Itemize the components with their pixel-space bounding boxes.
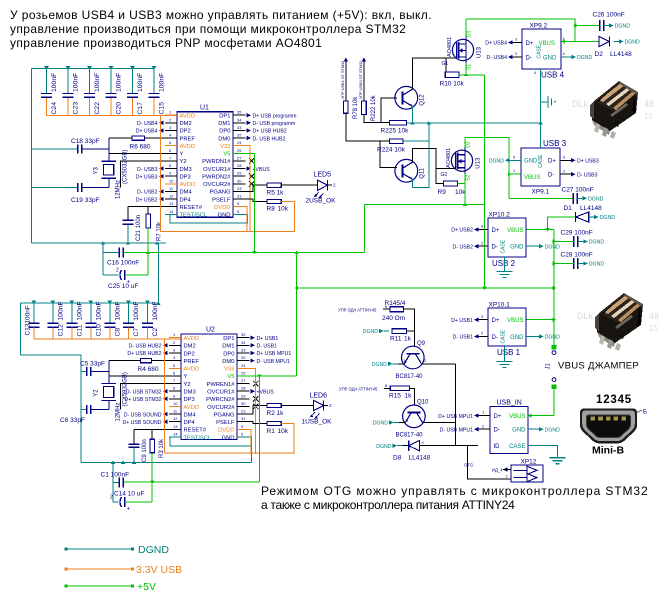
svg-text:GND: GND [218, 213, 231, 219]
wire R5 to LED5 [281, 184, 317, 186]
wire +5V from V5 U1 [246, 153, 255, 252]
wire D- USB3 out of XP9.1 [560, 168, 598, 178]
U1 pin PWRDN2# (right row 9) [202, 171, 254, 181]
svg-text:100nF: 100nF [159, 73, 166, 92]
wire Y pin to crystal [109, 152, 165, 154]
wire PSELF to R1 lower [250, 422, 268, 424]
U1 pin OVCUR2# (right row 10) [203, 178, 254, 188]
U1 pin DP2 (left row 3) [136, 125, 191, 135]
wire USB_IN CASE to earth [528, 446, 566, 464]
svg-text:PSELF: PSELF [212, 197, 231, 203]
wire PSELF to R8 [246, 199, 268, 201]
svg-text:Q11: Q11 [419, 167, 425, 179]
svg-text:VBUS ДЖАМПЕР: VBUS ДЖАМПЕР [558, 361, 639, 372]
svg-text:TEST/SCL: TEST/SCL [184, 435, 212, 441]
wire VBUS3 stub into XP9.1 [509, 173, 521, 175]
diode D1 LL4148 [564, 205, 616, 222]
svg-text:DGND: DGND [363, 329, 379, 335]
svg-text:УПР ОД4 ATTINY45: УПР ОД4 ATTINY45 [338, 307, 377, 312]
callout B pin label [636, 410, 647, 416]
wire XP9.1 CASE up [540, 123, 542, 148]
svg-text:D2: D2 [595, 51, 604, 58]
svg-text:OVCUR1#: OVCUR1# [203, 167, 231, 173]
U2 pin TEST/SCL (left row 14) [169, 432, 212, 442]
wire 3.3V loop under U1 [161, 231, 295, 233]
wire +5V upper jog to mosfet sources [365, 205, 485, 253]
svg-text:R11: R11 [390, 336, 402, 343]
U1 pin TEST/SCL (left row 14) [165, 209, 208, 219]
svg-text:32: 32 [237, 133, 242, 138]
svg-text:управление производиться при п: управление производиться при помощи микр… [10, 22, 406, 36]
wire DGND vertical crystal bus lower [80, 355, 82, 462]
svg-text:27: 27 [241, 378, 246, 383]
svg-text:D-: D- [526, 55, 532, 61]
svg-text:100nF: 100nF [95, 301, 102, 320]
U1 pin PGANG (right row 11) [210, 186, 246, 196]
svg-text:100nF: 100nF [116, 73, 123, 92]
svg-text:Mini-B: Mini-B [592, 445, 624, 457]
svg-text:D+ USB HUB2: D+ USB HUB2 [253, 129, 287, 135]
svg-text:VBUS: VBUS [507, 318, 523, 324]
svg-text:12: 12 [173, 416, 178, 421]
svg-text:24: 24 [237, 140, 242, 145]
U1 pin AVDD (left row 1) [165, 110, 195, 120]
svg-text:V5: V5 [227, 374, 234, 380]
U2 pin DP0 (right row 3) [223, 347, 291, 357]
svg-text:27: 27 [237, 155, 242, 160]
svg-text:D+ USB3: D+ USB3 [136, 174, 158, 180]
svg-text:PWRCN2#: PWRCN2# [206, 397, 235, 403]
svg-text:BC817-40: BC817-40 [396, 374, 424, 380]
wire Y2 pin to crystal lower [121, 384, 170, 410]
svg-text:Y2: Y2 [184, 382, 191, 388]
svg-text:48: 48 [644, 99, 654, 109]
U2 pin Y (left row 6) [169, 370, 188, 380]
wire D+ USB3 out of XP9.1 [560, 154, 599, 164]
svg-text:13: 13 [173, 424, 178, 429]
wire +5V left vertical riser [147, 228, 149, 275]
U2 pin PWREN1# (right row 7) [206, 378, 258, 388]
wire +5V below J1 jumper to USB_IN VBUS [553, 389, 555, 416]
resistor R8 10k [267, 199, 289, 212]
svg-text:ID: ID [494, 444, 501, 450]
svg-text:29: 29 [241, 393, 246, 398]
svg-text:V33: V33 [224, 367, 234, 373]
svg-text:34: 34 [241, 340, 246, 345]
wire GND loop under U1 [170, 214, 248, 223]
svg-text:C2: C2 [152, 328, 159, 337]
mosfet U13 AO4801 upper [442, 30, 483, 70]
junction marks DGND rails [101, 121, 543, 464]
U2 pin V5 (right row 6) [227, 370, 249, 380]
svg-text:LL4148: LL4148 [580, 205, 602, 212]
svg-text:DGND: DGND [545, 335, 561, 341]
jumper header XP12 [506, 459, 544, 483]
svg-text:D- USB1: D- USB1 [453, 335, 474, 341]
capacitor C15 100nF [149, 66, 166, 116]
svg-text:C16 100nF: C16 100nF [107, 260, 139, 267]
svg-text:AVDD: AVDD [184, 336, 200, 342]
svg-text:D2: D2 [466, 141, 472, 148]
svg-text:25: 25 [241, 370, 246, 375]
svg-text:GND: GND [512, 428, 526, 434]
svg-text:D- USB4: D- USB4 [487, 55, 508, 61]
svg-text:D-: D- [494, 428, 500, 434]
DGND feed to R11 [363, 329, 389, 335]
svg-text:C29 100nF: C29 100nF [561, 230, 593, 237]
U2 pin DP3 (left row 9) [124, 393, 194, 403]
wire D- USB1 into XP10.1 [453, 331, 488, 341]
svg-text:D+ USB SOUND: D+ USB SOUND [122, 420, 161, 426]
svg-text:12: 12 [169, 194, 174, 199]
svg-text:D1: D1 [467, 30, 473, 37]
wire U13 upper drain to VBUS4 [465, 19, 467, 37]
svg-text:DP0: DP0 [219, 129, 230, 135]
svg-text:DVDD: DVDD [214, 205, 230, 211]
svg-text:(CX5032GB): (CX5032GB) [123, 150, 129, 184]
wire DGND horizontal under U1 area [32, 242, 166, 244]
svg-text:DGND: DGND [545, 244, 561, 250]
svg-text:2: 2 [116, 268, 119, 274]
USB connector XP10.2 (USB 2) [488, 212, 526, 269]
svg-text:R15: R15 [389, 393, 401, 400]
U2 pin DM0 (right row 4) [222, 355, 290, 365]
svg-text:Y: Y [184, 374, 188, 380]
svg-text:48: 48 [649, 311, 659, 321]
svg-text:D- USB3: D- USB3 [137, 167, 158, 173]
capacitor C6 33pF [60, 405, 109, 424]
hub controller IC U1 [177, 105, 233, 218]
wire Q10 collector right [422, 422, 455, 424]
wire C29 from +5V bus [554, 241, 574, 243]
U1 pin DP4 (left row 12) [136, 194, 192, 204]
jumper J1 VBUS [546, 345, 557, 389]
svg-text:GND: GND [543, 55, 557, 61]
svg-text:R224 10k: R224 10k [377, 147, 406, 154]
wire Q9 collector right [421, 358, 455, 364]
svg-text:PGANG: PGANG [214, 412, 235, 418]
USB connector XP10.1 (USB 1) [488, 302, 526, 358]
svg-text:35: 35 [241, 332, 246, 337]
resistor R11 1k [390, 329, 412, 343]
U1 pin GND (right row 14) [218, 209, 246, 219]
svg-text:PWREN1#: PWREN1# [206, 382, 235, 388]
svg-text:R8: R8 [267, 206, 276, 213]
svg-text:УПР USB4 ОТ STM32: УПР USB4 ОТ STM32 [341, 61, 345, 99]
svg-text:14: 14 [173, 432, 178, 437]
svg-text:31: 31 [237, 194, 242, 199]
wire DGND left bus lower [20, 303, 22, 355]
svg-text:DM0: DM0 [222, 359, 234, 365]
wire 3.3V riser left of U2 [164, 339, 166, 453]
svg-text:УПР ОД4 ATTINY45: УПР ОД4 ATTINY45 [339, 387, 378, 392]
svg-text:C28 100nF: C28 100nF [561, 252, 593, 259]
capacitor C29 100nF [561, 230, 605, 248]
svg-text:LED6: LED6 [310, 393, 328, 400]
svg-text:D+: D+ [492, 318, 500, 324]
wire R78 to R224/Q11 base [346, 113, 389, 141]
wire XP10.1 CASE down + earth [497, 346, 513, 368]
svg-text:10k: 10k [278, 428, 289, 435]
wire VBUS2 row XP10.2 [526, 229, 554, 231]
svg-text:AVDD: AVDD [180, 144, 196, 150]
svg-text:C19 33pF: C19 33pF [71, 197, 100, 204]
svg-text:D+ USB programm: D+ USB programm [253, 113, 297, 119]
resistor R2 1k [267, 403, 285, 416]
wire D+ USB4 into XP9.2 [485, 37, 522, 47]
svg-text:DM4: DM4 [180, 190, 193, 196]
U2 pin DP2 (left row 3) [127, 347, 194, 357]
svg-text:100nF: 100nF [57, 301, 64, 320]
svg-text:PWRDN1#: PWRDN1# [202, 159, 231, 165]
U2 pin DP4 (left row 12) [122, 416, 195, 426]
svg-text:C15: C15 [159, 102, 166, 115]
svg-text:CASE: CASE [538, 154, 544, 168]
resistor R145/4 240 Om [382, 300, 406, 322]
wire PGANG to R5 [246, 185, 268, 191]
svg-text:100nF: 100nF [76, 301, 83, 320]
svg-text:R222 10k: R222 10k [371, 94, 377, 121]
svg-text:Y2: Y2 [94, 389, 100, 397]
U2 pin AVDD (left row 5) [169, 363, 199, 373]
svg-text:C11: C11 [76, 324, 83, 336]
svg-text:DGND: DGND [372, 362, 388, 368]
U1 pin PREF (left row 4) [165, 133, 195, 143]
svg-text:2USB_OK: 2USB_OK [306, 198, 337, 205]
wire +5V right bus x554 [553, 230, 555, 348]
capacitor C5 33pF [80, 361, 109, 376]
wire gate to R10 [445, 58, 447, 72]
wire D+ USB2 into XP10.2 [451, 224, 488, 234]
svg-text:D-: D- [548, 173, 554, 179]
wire R11 to base node [406, 330, 414, 332]
wire XP9.2 CASE down [540, 69, 542, 123]
USB connector XP9.1 (USB 3) [513, 139, 567, 196]
svg-text:U1: U1 [200, 105, 209, 112]
svg-text:USB 3: USB 3 [543, 139, 567, 148]
svg-text:28: 28 [241, 386, 246, 391]
svg-text:DLk: DLk [577, 311, 594, 321]
svg-text:D+: D+ [548, 159, 556, 165]
svg-text:Б: Б [643, 410, 647, 416]
capacitor C28 100nF [561, 252, 605, 270]
svg-text:LL4148: LL4148 [610, 51, 632, 58]
svg-text:1k: 1k [404, 336, 412, 343]
svg-text:+5V: +5V [137, 581, 156, 593]
svg-text:DGND: DGND [589, 240, 605, 246]
svg-text:DLk: DLk [572, 99, 589, 109]
svg-text:Режимом OTG можно управлять с: Режимом OTG можно управлять с микроконтр… [261, 484, 649, 498]
svg-text:PGANG: PGANG [210, 190, 231, 196]
svg-text:USB 1: USB 1 [497, 348, 521, 357]
wire DGND top rail of upper cap bank [32, 68, 154, 70]
svg-text:U13: U13 [476, 157, 482, 169]
svg-text:GND: GND [222, 435, 235, 441]
svg-text:OVCUR2#: OVCUR2# [203, 182, 231, 188]
U2 pin V33 (right row 5) [224, 363, 249, 373]
photo USB-A connector upper [572, 81, 654, 139]
LED LED5 2USB_OK [306, 172, 337, 205]
wire VBUS1 stub XP10.1 [526, 319, 554, 321]
wire GND loop under U2 [170, 437, 252, 446]
U1 pin DM2 (left row 2) [137, 117, 192, 127]
wire 3.3V from R1/PSELF lower [281, 424, 294, 454]
svg-text:33: 33 [241, 347, 246, 352]
svg-text:GND: GND [524, 159, 538, 165]
svg-text:D+ USB HUB2: D+ USB HUB2 [127, 351, 161, 357]
net label OD4 ATTINY45 for R145/4 [338, 304, 390, 312]
svg-text:BC817-40: BC817-40 [396, 433, 424, 439]
wire R145/4 to Q9 base [403, 309, 414, 346]
wire 3.3V from DVDD U2 [250, 429, 252, 454]
wire DGND top rail of lower cap bank [21, 302, 159, 304]
svg-text:DGND: DGND [489, 159, 505, 165]
svg-text:33: 33 [237, 125, 242, 130]
svg-text:Q10: Q10 [417, 400, 429, 406]
wire D- USB MPU1 into USB_IN [440, 423, 490, 433]
svg-text:RESET#: RESET# [180, 205, 203, 211]
capacitor C13 100nF [24, 301, 39, 339]
svg-text:3.3V USB: 3.3V USB [136, 564, 182, 576]
svg-text:DGND: DGND [138, 544, 169, 556]
svg-text:GND: GND [510, 245, 524, 251]
wire 3.3V from V33 U2 [250, 368, 256, 454]
wire +5V right vertical x484 [484, 75, 486, 288]
wire USB_IN GND to DGND [528, 427, 560, 433]
U1 pin PSELF (right row 12) [212, 194, 245, 204]
svg-text:(CX5932GB): (CX5932GB) [123, 372, 129, 406]
capacitor C16 100nF [103, 243, 154, 266]
U2 pin DVDD (right row 13) [218, 424, 249, 434]
resistor R7 10k [146, 207, 163, 241]
transistor Q9 BC817-40 [402, 341, 426, 369]
wire DGND horizontal to crystal area [21, 354, 81, 356]
wire OTG branch to XP12 [467, 446, 511, 479]
wire ID row into USB_IN [430, 445, 478, 447]
svg-text:OVCUR2#: OVCUR2# [207, 405, 235, 411]
svg-text:D+ USB2: D+ USB2 [451, 228, 473, 234]
capacitor C20 100nF [106, 66, 123, 116]
svg-text:+: + [127, 507, 131, 513]
svg-text:DP1: DP1 [223, 336, 234, 342]
wire 3.3V loop under U2 [165, 452, 295, 454]
svg-text:C8: C8 [114, 328, 121, 337]
svg-text:29: 29 [237, 171, 242, 176]
svg-text:1k: 1k [277, 410, 285, 417]
svg-text:C7: C7 [133, 328, 140, 337]
capacitor C27 100nF [562, 187, 604, 204]
U1 pin DM3 (left row 8) [137, 163, 192, 173]
U1 pin DP1 (right row 1) [219, 110, 296, 120]
svg-text:D+ USB1: D+ USB1 [451, 318, 473, 324]
svg-text:Q12: Q12 [419, 94, 425, 106]
wire Y pin to crystal lower [109, 375, 169, 377]
svg-text:CASE: CASE [537, 44, 543, 58]
capacitor C14 10uF polarized [110, 453, 152, 513]
legend +5V wire sample [65, 585, 135, 588]
svg-text:USB 4: USB 4 [541, 71, 565, 80]
U2 pin AVDD (left row 1) [169, 332, 199, 342]
resistor R5 1k [267, 183, 285, 196]
svg-text:AVDD: AVDD [180, 114, 196, 120]
resistor R3 10k [150, 429, 165, 458]
svg-text:AO4801: AO4801 [446, 148, 452, 168]
U2 pin DM4 (left row 11) [124, 409, 197, 419]
wire D- USB2 into XP10.2 [453, 240, 488, 250]
svg-text:УПР USB3 ОТ STM32: УПР USB3 ОТ STM32 [359, 61, 363, 99]
svg-text:D- USB4: D- USB4 [137, 121, 158, 127]
wire +5V from V5 U2 [250, 375, 297, 377]
svg-text:DGND: DGND [588, 197, 604, 203]
wire VBUS3 from mosfet2 drain to XP9.1 [465, 138, 509, 199]
wire 3.3V bottom rail of lower cap bank [34, 338, 181, 340]
svg-text:+VBUS: +VBUS [253, 167, 271, 173]
mosfet U13 AO4801 lower [441, 141, 482, 181]
svg-text:PREF: PREF [180, 136, 196, 142]
svg-text:C27 100nF: C27 100nF [562, 187, 594, 194]
svg-text:DGND: DGND [545, 427, 561, 433]
svg-text:DM4: DM4 [184, 412, 197, 418]
svg-text:25: 25 [237, 148, 242, 153]
svg-text:VBUS: VBUS [509, 414, 525, 420]
svg-text:100nF: 100nF [73, 73, 80, 92]
wire R2 to LED6 [281, 405, 313, 407]
wire VBUS2 D1 branch [548, 217, 576, 230]
wire Y2 pin to crystal [121, 161, 166, 188]
svg-text:12345: 12345 [596, 394, 632, 406]
svg-text:OVCUR1#: OVCUR1# [207, 389, 235, 395]
earth ground near XP9.2 [541, 96, 555, 108]
svg-text:C24: C24 [51, 102, 58, 115]
svg-text:XP10.1: XP10.1 [489, 302, 511, 309]
wire VBUS3 to C27 [509, 197, 573, 199]
U1 pin DP3 (left row 9) [136, 171, 191, 181]
wire PGANG to R2 lower [250, 406, 268, 415]
resistor R224 10k [377, 139, 406, 154]
svg-text:V33: V33 [220, 144, 230, 150]
svg-text:100nF: 100nF [114, 301, 121, 320]
resistor R222 10k [362, 94, 377, 121]
svg-text:D8: D8 [393, 455, 402, 462]
svg-text:15: 15 [649, 324, 658, 333]
svg-text:C22: C22 [94, 102, 101, 115]
wire U13 upper source down [465, 63, 467, 75]
capacitor C18 33pF [32, 138, 109, 154]
svg-text:C12: C12 [57, 324, 64, 337]
U1 pin AVDD (left row 5) [165, 140, 195, 150]
wire 3.3V bottom rail of upper cap bank [47, 115, 178, 117]
wire 3.3V from DVDD U1 [246, 207, 248, 232]
U2 pin DM2 (left row 2) [129, 340, 196, 350]
wire Q12 collector to U13 gate [412, 58, 456, 89]
wire Q9 emitter to DGND [372, 358, 406, 368]
svg-text:DP1: DP1 [219, 114, 230, 120]
U2 pin AVDD (left row 10) [169, 401, 199, 411]
svg-text:D- USB3: D- USB3 [577, 172, 598, 178]
capacitor C8 100nF [104, 301, 121, 339]
svg-text:Y3: Y3 [94, 166, 100, 174]
resistor R4 680 [109, 358, 169, 373]
svg-text:DM1: DM1 [218, 121, 230, 127]
svg-text:G1: G1 [442, 61, 449, 67]
wire Q11 emitter DGND loop [412, 123, 429, 187]
resistor R225 10k [381, 120, 410, 134]
svg-text:PSELF: PSELF [216, 420, 235, 426]
svg-text:D+ USB3: D+ USB3 [577, 159, 599, 165]
svg-text:28: 28 [237, 163, 242, 168]
svg-text:DGND: DGND [373, 421, 389, 427]
svg-text:DGND: DGND [577, 55, 593, 61]
